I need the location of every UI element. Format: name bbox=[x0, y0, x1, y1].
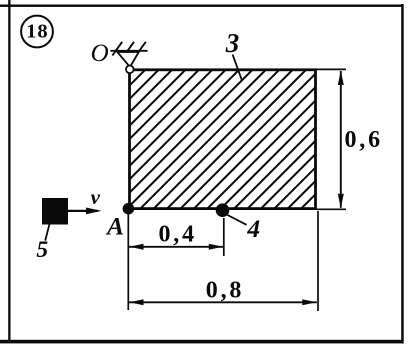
border frame bottom line bbox=[0, 340, 404, 344]
figure number circle 18 bbox=[21, 16, 53, 48]
dimension 0,8 line bbox=[129, 301, 317, 303]
svg-text:O: O bbox=[91, 40, 109, 67]
extension line below point 4 bbox=[223, 218, 225, 256]
extension line below point A bbox=[127, 215, 129, 311]
leader line for label 3 bbox=[233, 55, 242, 81]
border frame right line bbox=[401, 4, 404, 344]
extension line below plate right edge bbox=[317, 211, 319, 311]
svg-text:5: 5 bbox=[36, 237, 48, 263]
svg-text:4: 4 bbox=[246, 214, 260, 243]
point A dot bbox=[123, 203, 135, 215]
svg-text:3: 3 bbox=[225, 28, 240, 58]
point 4 dot bbox=[216, 203, 230, 217]
dimension 0,6 bottom extension line bbox=[316, 208, 346, 210]
pivot support hatching bbox=[110, 42, 147, 56]
border frame top line bbox=[0, 5, 404, 7]
svg-text:0,8: 0,8 bbox=[206, 277, 244, 303]
dimension 0,6 top arrowhead bbox=[338, 71, 344, 86]
velocity arrowhead bbox=[86, 208, 102, 215]
dimension 0,6 line bbox=[340, 71, 342, 208]
dimension 0,6 top extension line bbox=[316, 68, 346, 70]
svg-text:A: A bbox=[105, 212, 124, 241]
border frame left line bbox=[8, 0, 10, 342]
plate 3 hatching bbox=[0, 69, 408, 209]
velocity arrow bbox=[68, 210, 98, 212]
body 5 (black square) bbox=[42, 198, 68, 225]
plate 3 outline bbox=[130, 70, 316, 209]
svg-text:0,6: 0,6 bbox=[345, 127, 383, 153]
dimension 0,8 left arrowhead bbox=[129, 299, 143, 305]
svg-text:0,4: 0,4 bbox=[159, 222, 197, 248]
dimension 0,4 line bbox=[129, 246, 223, 248]
leader line for label 4 bbox=[227, 215, 247, 225]
dimension 0,4 left arrowhead bbox=[129, 244, 143, 250]
pivot triangle bbox=[117, 52, 139, 67]
svg-text:v: v bbox=[91, 185, 101, 209]
dimension 0,6 bottom arrowhead bbox=[338, 194, 344, 209]
dimension 0,4 right arrowhead bbox=[209, 244, 223, 250]
leader line for label 5 bbox=[45, 224, 49, 240]
pivot pin circle bbox=[126, 66, 134, 74]
dimension 0,8 right arrowhead bbox=[302, 299, 316, 305]
svg-text:18: 18 bbox=[26, 21, 49, 43]
